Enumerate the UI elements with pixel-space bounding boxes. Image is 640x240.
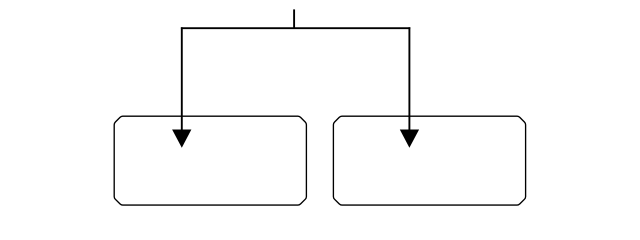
wire: right drop: [408, 27, 410, 134]
wire: top stub: [293, 9, 295, 28]
box left: [114, 116, 306, 205]
arrowhead right: [400, 130, 419, 148]
box right: [333, 116, 525, 205]
wire: horizontal branch: [181, 27, 410, 29]
wire: left drop: [181, 27, 183, 134]
arrowhead left: [172, 130, 191, 148]
